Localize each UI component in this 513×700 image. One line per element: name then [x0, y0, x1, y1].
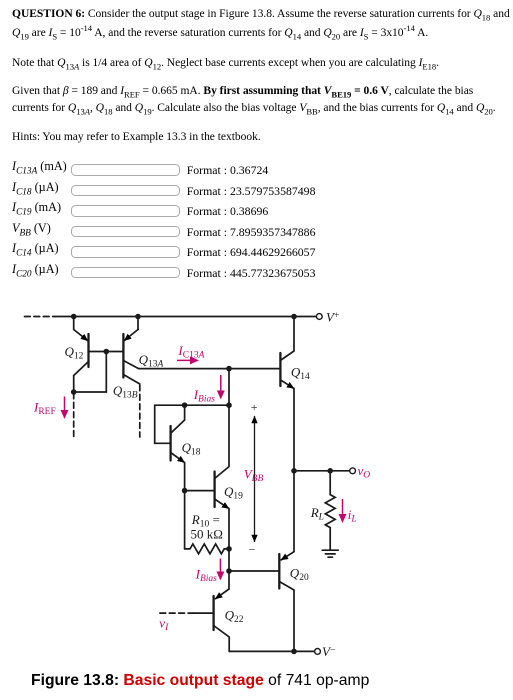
transistor Q22 collector: [214, 626, 230, 652]
svg-text:Q14: Q14: [291, 365, 310, 383]
svg-text:IBias: IBias: [193, 387, 216, 405]
given line 1: [12, 85, 473, 97]
current arrow iL: [342, 499, 344, 522]
junction Q18 emitter / Q19 base: [182, 488, 188, 494]
junction bias node: [226, 402, 232, 408]
ground: [322, 549, 338, 551]
note line: [12, 57, 439, 69]
junction Q12 base tie: [104, 349, 110, 355]
transistor Q12 collector: [74, 362, 89, 393]
svg-text:50 kΩ: 50 kΩ: [191, 527, 223, 542]
svg-text:Q22: Q22: [225, 608, 244, 626]
wire base-collector tie: [74, 352, 107, 393]
transistor Q20 collector: [279, 582, 294, 652]
junction Q20 base wire: [226, 568, 232, 574]
transistor Q20 base bar: [278, 554, 280, 589]
junction Q18 collector node: [182, 402, 188, 408]
transistor Q13 base bar: [122, 334, 124, 378]
wire Q19 base: [185, 490, 215, 492]
junction Q12 collector / IREF: [71, 389, 77, 395]
paragraph line 2: [12, 27, 428, 39]
terminal V+: [316, 314, 322, 320]
row 1: IC13A: [12, 159, 67, 174]
svg-text:V+: V+: [326, 310, 339, 325]
given line 2: [12, 102, 496, 114]
svg-text:−: −: [249, 543, 256, 557]
wire V+ rail: [54, 316, 316, 318]
svg-text:+: +: [251, 400, 258, 414]
wire Q13B dashed: [139, 385, 141, 437]
transistor Q22 base bar: [212, 596, 214, 630]
svg-text:Q20: Q20: [290, 566, 309, 584]
wire bias vertical top: [228, 369, 230, 406]
row 5: IC14: [12, 241, 59, 256]
VBB measurement arrow: [254, 417, 256, 542]
transistor Q19 collector: [215, 405, 229, 478]
wire node line: [155, 404, 229, 406]
labels black: [65, 310, 340, 660]
transistor Q14 collector: [281, 317, 294, 361]
transistor Q18 emitter: [171, 453, 185, 463]
row 3: IC19: [12, 200, 61, 215]
svg-text:RL: RL: [310, 505, 324, 523]
wire V- rail: [229, 650, 314, 652]
resistor R10: [185, 544, 229, 554]
svg-text:Q19: Q19: [224, 484, 243, 502]
junction Q14 collector on V+ rail: [291, 314, 297, 320]
current arrow IBias top: [220, 375, 222, 398]
transistor Q13 emitter: [137, 317, 139, 330]
terminal vO: [350, 468, 356, 474]
svg-text:IC13A: IC13A: [177, 343, 204, 361]
svg-text:VBB: VBB: [244, 467, 264, 485]
labels magenta: [33, 343, 370, 633]
current arrow IBias bottom: [219, 559, 221, 580]
svg-text:vO: vO: [358, 463, 371, 481]
transistor Q13A collector: [123, 361, 138, 369]
hints line: [12, 131, 261, 143]
wire bias vertical bottom: [228, 549, 230, 589]
svg-text:Q12: Q12: [65, 344, 84, 362]
terminal V-: [315, 649, 321, 655]
junction RL top on output node: [327, 468, 333, 474]
wire Q12-Q13 base: [89, 351, 124, 353]
transistor Q14 base bar: [279, 353, 281, 386]
svg-text:vI: vI: [159, 616, 169, 634]
svg-text:Q18: Q18: [182, 440, 201, 458]
wire Q22 base dashed input: [160, 612, 193, 614]
svg-text:IBias: IBias: [195, 567, 218, 585]
row 2: IC18: [12, 180, 59, 195]
wire Q18 base loop: [155, 405, 171, 443]
transistor Q14 emitter: [280, 380, 293, 388]
transistor Q12 emitter: [73, 317, 75, 330]
wire output node: [294, 470, 350, 472]
resistor RL: [325, 495, 335, 528]
wire Q20 base: [229, 570, 279, 572]
transistor Q20 emitter: [293, 471, 295, 552]
current arrow IREF: [64, 397, 66, 418]
row 6: IC20: [12, 262, 59, 277]
transistor Q19 emitter: [215, 499, 229, 509]
wire V+ rail dashed: [25, 316, 55, 318]
transistor Q19 base bar: [213, 472, 215, 508]
wire Q13A to Q14 base: [139, 368, 281, 370]
wire IREF dashed: [73, 393, 75, 437]
svg-text:IREF: IREF: [33, 400, 56, 418]
junction R10 right end: [226, 546, 232, 552]
current arrow IC13A: [177, 359, 198, 361]
figure caption: [31, 672, 369, 690]
junction Q13 emitter on V+ rail: [135, 314, 141, 320]
paragraph line 1: [12, 8, 510, 20]
wire R10 left vertical: [184, 491, 186, 549]
junction Q14 emitter output node: [291, 468, 297, 474]
transistor Q18 base bar: [169, 426, 171, 461]
transistor Q13B collector: [123, 375, 139, 385]
junction bias line on Q14 base wire: [226, 366, 232, 372]
svg-text:Q13A: Q13A: [139, 352, 164, 370]
transistor Q22 emitter: [216, 589, 230, 599]
transistor Q12 base bar: [87, 334, 89, 367]
svg-text:V−: V−: [322, 644, 335, 659]
junction Q12 emitter on V+ rail: [71, 314, 77, 320]
svg-text:Q13B: Q13B: [113, 383, 138, 401]
row 4: VBB: [12, 221, 51, 236]
junction Q20 collector on V- rail: [291, 649, 297, 655]
wire RL bottom lead: [329, 528, 331, 551]
transistor Q18 collector: [171, 405, 184, 433]
wire RL top lead: [329, 471, 331, 495]
svg-text:iL: iL: [348, 507, 357, 525]
